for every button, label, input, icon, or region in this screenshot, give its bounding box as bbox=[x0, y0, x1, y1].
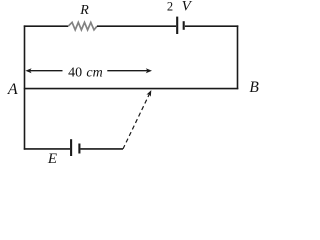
wire AB potentiometer bbox=[24, 88, 239, 90]
battery U1 2V long plate bbox=[176, 17, 178, 34]
wire left vertical bbox=[24, 25, 26, 149]
wire top-right segment bbox=[185, 25, 238, 27]
battery U1 2V short plate bbox=[183, 21, 185, 30]
svg-text:V: V bbox=[182, 0, 193, 15]
svg-text:R: R bbox=[79, 3, 89, 18]
wire top-middle segment bbox=[97, 25, 176, 27]
battery E long plate bbox=[70, 139, 72, 156]
svg-text:2: 2 bbox=[167, 0, 173, 14]
wire bottom-right segment bbox=[81, 148, 124, 150]
wire bottom-left segment bbox=[24, 148, 70, 150]
svg-text:A: A bbox=[7, 81, 18, 98]
svg-text:E: E bbox=[47, 151, 57, 166]
jockey arrowhead bbox=[146, 90, 151, 97]
measurement arrowhead right bbox=[146, 68, 152, 73]
wire right vertical bbox=[237, 25, 239, 89]
measurement arrow left segment bbox=[29, 70, 63, 72]
jockey dashed wire bbox=[123, 94, 150, 149]
resistor R bbox=[68, 22, 97, 30]
label 40 cm bbox=[68, 65, 103, 80]
measurement arrowhead left bbox=[25, 68, 31, 73]
svg-text:B: B bbox=[249, 79, 259, 96]
label 2 V bbox=[167, 0, 193, 15]
svg-text:cm: cm bbox=[86, 65, 102, 80]
measurement arrow right segment bbox=[107, 70, 149, 72]
battery E short plate bbox=[78, 144, 80, 154]
svg-text:40: 40 bbox=[68, 65, 82, 80]
wire top-left segment bbox=[24, 25, 68, 27]
